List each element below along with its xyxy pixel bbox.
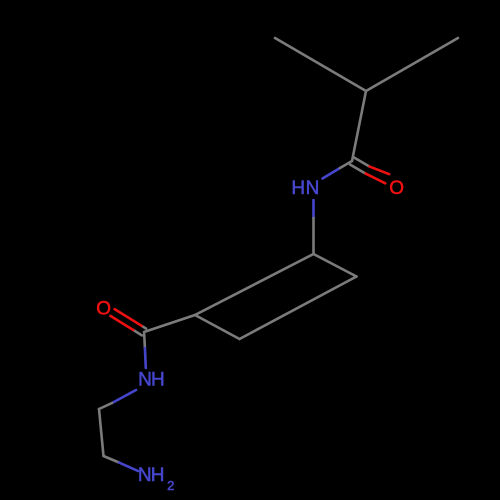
- svg-text:O: O: [389, 178, 404, 199]
- ring to bottom carbonyl: [144, 315, 195, 332]
- svg-text:N: N: [138, 369, 152, 390]
- ring bottom-left edge: [195, 315, 240, 339]
- C-N bond bottom amide: [143, 334, 146, 348]
- N to ring vertical: [312, 200, 315, 218]
- CH2b-N2: [104, 456, 120, 463]
- svg-text:2: 2: [167, 478, 174, 493]
- svg-text:H: H: [151, 465, 165, 486]
- stem: [352, 91, 366, 161]
- N-C bond top amide: [323, 168, 341, 179]
- svg-text:O: O: [96, 298, 111, 319]
- C=O top double bond: [350, 165, 366, 174]
- svg-text:N: N: [306, 178, 320, 199]
- svg-text:H: H: [291, 178, 305, 199]
- C=O bottom double bond: [141, 326, 146, 329]
- right leg: [366, 38, 458, 91]
- svg-text:H: H: [151, 369, 165, 390]
- ring long side beta: [240, 277, 357, 340]
- ring long side alpha: [195, 254, 314, 315]
- CH2a-CH2b: [99, 409, 104, 456]
- ring top-right edge: [314, 254, 357, 277]
- svg-text:N: N: [138, 465, 152, 486]
- N-CH2a: [112, 390, 136, 403]
- left leg: [275, 38, 366, 91]
